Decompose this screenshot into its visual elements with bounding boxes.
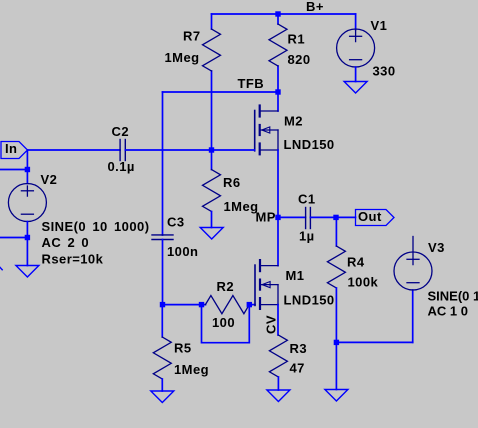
ground under V2 xyxy=(16,266,39,278)
svg-text:AC 2 0: AC 2 0 xyxy=(42,235,90,250)
svg-text:Out: Out xyxy=(358,209,382,224)
ground under R4 xyxy=(325,390,348,402)
wire TFB horizontal xyxy=(163,91,279,93)
resistor R5 xyxy=(153,337,171,379)
resistor R6 xyxy=(203,170,221,212)
svg-text:M2: M2 xyxy=(284,114,303,129)
wire M2 source down to MP xyxy=(277,150,279,217)
svg-text:R6: R6 xyxy=(223,175,241,190)
svg-text:R3: R3 xyxy=(290,341,308,356)
wire M2 drain xyxy=(277,92,279,111)
node V2 bottom junction xyxy=(25,235,30,240)
node V2 top junction xyxy=(25,167,30,172)
svg-text:C2: C2 xyxy=(112,124,130,139)
node B+ junction xyxy=(275,11,280,16)
node R2 right junction xyxy=(247,302,252,307)
voltage source V1 xyxy=(337,29,375,67)
wire R1 top stub xyxy=(277,14,279,24)
wire ground stem below junction xyxy=(335,342,337,389)
svg-text:1µ: 1µ xyxy=(299,229,315,244)
svg-text:MP: MP xyxy=(256,210,276,225)
svg-text:V3: V3 xyxy=(428,240,445,255)
resistor R4 xyxy=(327,246,345,288)
svg-text:0.1µ: 0.1µ xyxy=(108,159,135,174)
svg-text:Rser=10k: Rser=10k xyxy=(42,252,104,267)
wire MP to C1 xyxy=(278,216,306,218)
wire B+ top rail xyxy=(212,13,356,15)
svg-text:LND150: LND150 xyxy=(284,137,335,152)
ground under R3 xyxy=(267,390,290,402)
svg-text:820: 820 xyxy=(288,52,311,67)
voltage source V3 xyxy=(394,237,432,291)
svg-text:100: 100 xyxy=(212,315,235,330)
svg-text:CV: CV xyxy=(264,315,279,334)
wire R1 bottom to TFB xyxy=(277,66,279,92)
svg-text:1Meg: 1Meg xyxy=(174,362,209,377)
svg-text:B+: B+ xyxy=(306,0,324,14)
capacitor C1 xyxy=(306,208,311,229)
svg-text:TFB: TFB xyxy=(238,76,265,91)
transistor M2 xyxy=(255,106,278,155)
node R4-V3 junction xyxy=(334,340,339,345)
capacitor C3 xyxy=(152,235,173,240)
wire stub left lower xyxy=(0,237,27,239)
wire R6 top xyxy=(211,150,213,170)
wire R6 bottom xyxy=(211,212,213,228)
wire M1 source to R3 xyxy=(277,305,279,335)
svg-text:In: In xyxy=(5,141,17,156)
node C3-R5 junction xyxy=(160,302,165,307)
svg-text:R4: R4 xyxy=(347,254,365,269)
svg-text:R7: R7 xyxy=(183,29,201,44)
svg-text:V2: V2 xyxy=(41,172,58,187)
svg-text:V1: V1 xyxy=(371,18,388,33)
ground edge fragment left xyxy=(0,267,2,269)
resistor R7 xyxy=(203,29,221,71)
wire V1 drop xyxy=(355,14,357,30)
wire C3 bottom xyxy=(162,240,164,305)
wire R4 bottom xyxy=(335,288,337,342)
svg-text:SINE(0 10 1000): SINE(0 10 1000) xyxy=(42,219,150,234)
svg-text:100n: 100n xyxy=(167,244,198,259)
wire R4 top xyxy=(335,217,337,246)
svg-text:SINE(0 10: SINE(0 10 xyxy=(428,289,478,304)
port flag In xyxy=(1,142,28,159)
wire bottom row to R2 xyxy=(163,304,206,306)
voltage source V2 xyxy=(8,184,46,222)
ground under V1 xyxy=(344,82,367,94)
svg-text:LND150: LND150 xyxy=(284,292,335,307)
wire R7 bottom to gate node xyxy=(211,71,213,150)
wire left drop to C3 xyxy=(162,92,164,235)
capacitor C2 xyxy=(120,140,125,161)
transistor M1 xyxy=(255,260,278,309)
svg-text:1Meg: 1Meg xyxy=(165,50,200,65)
svg-text:R2: R2 xyxy=(217,279,235,294)
svg-text:47: 47 xyxy=(290,361,305,376)
wire M1 gate lead xyxy=(249,304,255,306)
node gate junction xyxy=(209,147,214,152)
svg-text:1Meg: 1Meg xyxy=(224,199,259,214)
wire bottom row to V3 xyxy=(336,341,412,343)
svg-text:M1: M1 xyxy=(286,268,305,283)
resistor R3 xyxy=(269,335,287,377)
node R2 left junction xyxy=(199,302,204,307)
wire V2 bottom xyxy=(26,222,28,266)
svg-text:R1: R1 xyxy=(288,32,306,47)
port flag Out xyxy=(356,210,395,226)
svg-text:330: 330 xyxy=(373,64,396,79)
ground under R5 xyxy=(151,391,174,403)
ground under R6 xyxy=(200,228,223,240)
svg-text:100k: 100k xyxy=(348,274,379,289)
wire M1 drain from MP xyxy=(277,217,279,265)
wire stub left upper xyxy=(0,169,27,171)
node Out junction xyxy=(333,215,338,220)
svg-text:C1: C1 xyxy=(298,191,316,206)
resistor R1 xyxy=(269,24,287,66)
wire R3 bottom xyxy=(277,377,279,390)
wire C1 to out junction xyxy=(310,216,355,218)
wire R5 top xyxy=(161,305,163,337)
wire C2 to gate node xyxy=(125,149,254,151)
svg-text:AC 1 0: AC 1 0 xyxy=(428,304,468,319)
wire V1 ground stem xyxy=(355,67,357,82)
wire In row to C2 xyxy=(28,149,121,151)
wire R2 bypass loop xyxy=(202,305,250,343)
wire R5 bottom xyxy=(161,379,163,391)
resistor R2 xyxy=(205,296,249,314)
svg-text:R5: R5 xyxy=(174,341,192,356)
node TFB junction xyxy=(275,89,280,94)
wire V3 bottom xyxy=(412,290,414,342)
node MP junction xyxy=(275,215,280,220)
svg-text:C3: C3 xyxy=(167,214,185,229)
wire R7 top stub xyxy=(211,14,213,29)
wire In drop to V2 xyxy=(26,150,28,184)
